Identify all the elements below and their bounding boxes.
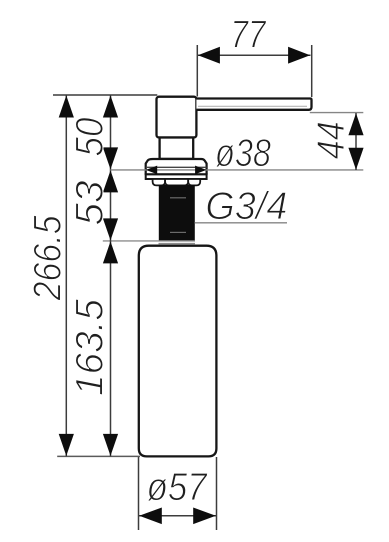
diameter57 extension left [138, 457, 140, 530]
arrow 163.5 bottom [103, 434, 118, 456]
svg-text:G3/4: G3/4 [205, 185, 287, 228]
arrow 266.5 top [59, 96, 74, 118]
collar bottom line [159, 243, 196, 245]
flange seam [146, 166, 207, 168]
arrow diameter57 left [139, 508, 162, 525]
top extension line [53, 94, 157, 96]
svg-text:ø38: ø38 [215, 132, 271, 175]
arrow diameter57 right [193, 508, 216, 525]
svg-text:163.5: 163.5 [69, 299, 112, 396]
spout [196, 99, 311, 110]
dimension 44 extension top [310, 112, 364, 114]
svg-text:50: 50 [69, 117, 112, 156]
svg-text:77: 77 [231, 14, 267, 57]
collar top extension line [103, 240, 195, 242]
spout inner line [198, 105, 307, 107]
dimension line 77 [197, 54, 310, 56]
arrow diameter38 right [195, 166, 206, 175]
svg-text:ø57: ø57 [147, 466, 208, 509]
dimension line 44 [355, 113, 357, 170]
nut lobe middle [165, 179, 188, 185]
arrow 53 top [103, 170, 118, 192]
svg-text:44: 44 [310, 121, 353, 159]
arrow 44 bottom [348, 148, 363, 170]
dimension line 266.5 [65, 95, 67, 456]
thread [159, 185, 195, 241]
dimension line 50-53-163.5 [110, 95, 112, 456]
dimension line diameter57 [139, 515, 216, 517]
G3/4 underline [195, 222, 288, 224]
thread streak 2 [170, 231, 186, 233]
thread streak 1 [170, 197, 186, 199]
svg-text:53: 53 [69, 180, 112, 225]
arrow 44 top [348, 113, 363, 135]
dimension 77 extension left [196, 45, 198, 97]
nut lobe left [153, 179, 166, 185]
arrow 53 bottom [103, 218, 118, 240]
pump head lower neck [160, 138, 194, 159]
arrow 77 left [198, 47, 220, 64]
pump head upper block [157, 97, 197, 138]
nut lobe right [188, 179, 200, 185]
bottle [139, 246, 217, 457]
arrow 50 bottom [103, 147, 118, 169]
arrow diameter38 left [146, 166, 157, 175]
svg-text:266.5: 266.5 [27, 215, 70, 301]
flange [146, 159, 207, 174]
flange extension line [111, 169, 364, 171]
arrow 266.5 bottom [59, 434, 74, 456]
diameter57 extension right [216, 457, 218, 530]
arrow 50 top [103, 96, 118, 118]
dimension 77 extension right [311, 45, 313, 97]
washer band [146, 174, 207, 179]
arrow 163.5 top [103, 241, 118, 263]
bottom extension line [57, 455, 140, 457]
arrow 77 right [288, 47, 310, 64]
